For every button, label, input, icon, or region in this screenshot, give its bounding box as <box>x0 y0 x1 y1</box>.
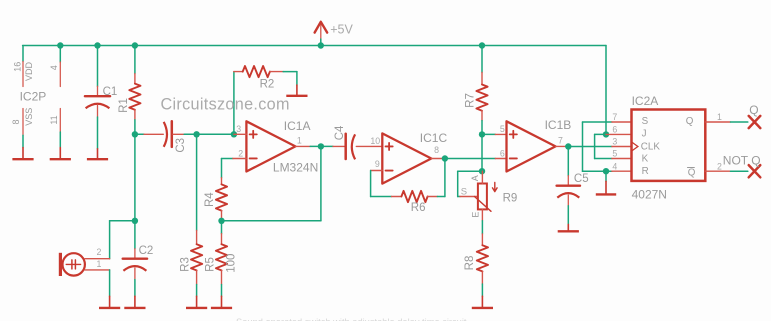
wire R3 to ground <box>196 285 198 297</box>
pin 2 of IC1A <box>233 158 247 160</box>
label R2 <box>260 78 275 90</box>
power pin 16 VDD <box>22 62 24 87</box>
wire R2 to ground <box>283 72 297 85</box>
pin name NQ box <box>688 167 696 178</box>
svg-text:Sound operated switch with adj: Sound operated switch with adjustable de… <box>236 317 467 321</box>
wire mic node <box>134 134 136 221</box>
label R5 <box>204 257 216 272</box>
svg-text:3: 3 <box>236 124 241 134</box>
label C1 <box>103 86 118 98</box>
pin number 4 <box>49 65 59 70</box>
svg-text:R5: R5 <box>204 257 216 272</box>
node junction rail +5V symbol <box>318 42 324 48</box>
svg-text:C1: C1 <box>103 86 118 98</box>
trimmer R9 <box>460 171 497 211</box>
svg-text:10: 10 <box>370 136 380 146</box>
svg-text:R1: R1 <box>118 98 130 113</box>
pin name CLK box <box>641 142 661 153</box>
pin number 5 <box>500 124 505 134</box>
node junction mic-C2 <box>132 218 138 224</box>
ground for C2 <box>124 296 145 308</box>
wire node B down to R3 <box>196 134 198 230</box>
pin 6 of IC2A <box>606 133 632 135</box>
pin number 8 <box>11 119 21 124</box>
watermark Circuitszone.com <box>161 95 290 113</box>
microphone MIC <box>60 253 84 276</box>
wire rail to R7 <box>481 46 483 73</box>
pin name S box <box>642 116 649 127</box>
ground for C1 <box>87 149 108 159</box>
svg-text:VSS: VSS <box>24 108 34 126</box>
svg-text:IC1A: IC1A <box>284 119 311 133</box>
wire node B to opamp input <box>197 133 234 135</box>
svg-text:R7: R7 <box>464 93 476 108</box>
svg-text:IC1C: IC1C <box>420 131 448 145</box>
label R4 <box>204 192 216 207</box>
svg-text:4: 4 <box>612 161 617 171</box>
svg-text:9: 9 <box>375 159 380 169</box>
svg-text:R6: R6 <box>411 202 426 214</box>
svg-text:A: A <box>470 175 480 181</box>
wire R5 to ground <box>221 285 223 297</box>
pin number 16 <box>12 62 22 72</box>
ground for R8 <box>472 296 493 308</box>
svg-text:7: 7 <box>612 112 617 122</box>
svg-text:2: 2 <box>238 148 243 158</box>
svg-text:1: 1 <box>297 136 302 146</box>
pin 1 of mic <box>85 269 110 271</box>
svg-text:100: 100 <box>226 254 238 273</box>
power pin 8 VSS <box>22 109 24 136</box>
node junction rail-C1 <box>94 42 100 48</box>
svg-text:R: R <box>642 166 649 177</box>
pin number 11 <box>49 115 59 124</box>
pin name S <box>461 187 467 198</box>
svg-text:Q: Q <box>688 167 696 178</box>
node junction R7-pin5 <box>479 131 485 137</box>
svg-text:J: J <box>642 128 647 139</box>
wire NOT Q out <box>731 170 748 172</box>
ground for C5 <box>558 224 579 231</box>
pin number 8 <box>434 145 439 155</box>
pin 7 of IC2A <box>612 121 632 123</box>
ground for R3 <box>186 296 207 308</box>
power pin VDD wire <box>22 46 24 62</box>
pin 9 of IC1C <box>371 170 383 172</box>
svg-text:11: 11 <box>49 115 59 124</box>
ground for S and R <box>596 181 616 194</box>
wire Q out <box>731 121 748 123</box>
pin number 1 mic <box>96 259 101 269</box>
wire pin3 node up to R2 <box>233 72 235 135</box>
wire +5V top rail <box>23 46 606 134</box>
ground for R5 <box>211 296 232 308</box>
label Q <box>749 103 758 117</box>
svg-text:3: 3 <box>612 137 617 147</box>
wire R6 to output node <box>437 159 445 197</box>
pin number 5 IC2A <box>612 149 617 159</box>
pin 8 of IC1C <box>431 158 443 160</box>
wire R9 to R8 <box>481 209 483 234</box>
node junction R-ground <box>603 168 609 174</box>
pin 2 of IC2A <box>705 170 730 172</box>
node junction rail-R1 <box>132 42 138 48</box>
pin number 2 mic <box>96 247 101 257</box>
wire mic pin1 to ground <box>109 270 111 296</box>
capacitor C4 <box>333 134 382 160</box>
label IC1B <box>545 118 572 132</box>
label NOT Q <box>723 154 761 168</box>
pin number 10 <box>370 136 380 146</box>
label +5V <box>330 23 353 37</box>
power pin 11 <box>59 109 61 133</box>
pin number 6 <box>500 148 505 158</box>
capacitor C2 <box>123 249 147 280</box>
svg-text:S: S <box>461 187 467 198</box>
svg-text:16: 16 <box>12 62 22 72</box>
ground for pin 11 <box>50 148 71 160</box>
pin name J box <box>642 128 647 139</box>
node junction C3-R3 <box>193 131 199 137</box>
svg-text:2: 2 <box>717 161 722 171</box>
svg-text:IC2A: IC2A <box>632 94 659 108</box>
svg-text:5: 5 <box>612 149 617 159</box>
pin name Q box <box>686 116 694 127</box>
wire node to R5 <box>221 221 223 234</box>
pin 2 of mic <box>85 258 110 260</box>
pin name E <box>471 212 481 218</box>
label C4 <box>334 125 346 140</box>
node junction divider-R9 <box>479 168 485 174</box>
wire node to mic pin2 <box>110 221 135 259</box>
value 100 <box>226 254 238 273</box>
wire output to pin 6 <box>445 158 495 160</box>
svg-text:7: 7 <box>558 136 563 146</box>
svg-text:6: 6 <box>500 148 505 158</box>
label R3 <box>179 257 191 272</box>
pin name R box <box>642 166 649 177</box>
svg-text:C5: C5 <box>574 173 589 185</box>
wire pin9 loop <box>371 171 392 197</box>
svg-text:LM324N: LM324N <box>273 160 318 174</box>
svg-text:IC2P: IC2P <box>20 89 47 103</box>
wire IC1A out to C4 <box>321 145 333 147</box>
label IC1A <box>284 119 311 133</box>
svg-text:Circuitszone.com: Circuitszone.com <box>161 95 290 113</box>
wire R8 to ground <box>481 284 483 296</box>
wire C3 to node B <box>184 133 196 135</box>
pin name VSS <box>24 108 34 126</box>
wire R node to ground <box>605 171 607 181</box>
node junction pin3-R2 <box>231 131 237 137</box>
wire C2 to ground <box>134 280 136 297</box>
capacitor C5 <box>557 176 580 206</box>
resistor R8 <box>477 234 488 284</box>
supply +5V symbol <box>315 22 328 46</box>
svg-text:R3: R3 <box>179 257 191 272</box>
wire node to pin 5 <box>482 133 495 135</box>
node junction IC1C output <box>442 155 448 161</box>
pin name A <box>470 175 480 181</box>
resistor R5 <box>216 234 227 285</box>
pin number 9 <box>375 159 380 169</box>
svg-text:8: 8 <box>434 145 439 155</box>
svg-text:R9: R9 <box>503 192 518 204</box>
power pin 4 wire <box>59 46 61 63</box>
svg-text:Q: Q <box>749 103 758 117</box>
pin 1 of IC2A <box>705 121 730 123</box>
svg-text:4: 4 <box>49 65 59 70</box>
label LM324N <box>273 160 318 174</box>
wire pin5 node down <box>481 134 483 171</box>
label R7 <box>464 93 476 108</box>
node junction rail-pin4 <box>57 42 63 48</box>
svg-text:C4: C4 <box>334 125 346 140</box>
svg-text:IC1B: IC1B <box>545 118 572 132</box>
wire wiper S loop <box>458 171 482 196</box>
node junction IC1A output <box>318 143 324 149</box>
pin number 7 <box>558 136 563 146</box>
pin name K box <box>642 154 649 165</box>
label IC1C <box>420 131 448 145</box>
caption text cut at bottom <box>236 317 467 321</box>
label IC2A <box>632 94 659 108</box>
pin 7 of IC1B <box>556 145 567 147</box>
pin number 7 IC2A <box>612 112 617 122</box>
pin number 6 IC2A <box>612 125 617 135</box>
svg-text:2: 2 <box>96 247 101 257</box>
svg-text:R8: R8 <box>464 256 476 271</box>
pin number 4 IC2A <box>612 161 617 171</box>
node junction rail-J <box>603 131 609 137</box>
resistor R4 <box>216 178 227 220</box>
wire C1 to ground <box>97 117 99 149</box>
wire R7 to node <box>481 121 483 135</box>
wire output node to C5 <box>567 147 569 176</box>
svg-text:R4: R4 <box>204 192 216 207</box>
ground for VSS <box>12 148 33 160</box>
pin 5 of IC1B <box>495 133 506 135</box>
svg-text:1: 1 <box>96 259 101 269</box>
svg-text:K: K <box>642 154 649 165</box>
wire CLK net <box>568 146 612 148</box>
wire S-R tie <box>583 122 612 171</box>
op-amp IC1C <box>382 133 431 183</box>
node junction IC1B output <box>565 143 571 149</box>
svg-text:6: 6 <box>612 125 617 135</box>
wire C5 to ground <box>567 206 569 225</box>
svg-text:4027N: 4027N <box>632 187 667 201</box>
resistor R7 <box>476 73 487 121</box>
wire pin1 to node <box>310 145 321 147</box>
wire R1 to node A <box>134 120 136 135</box>
pin number 1 IC2A <box>717 112 722 122</box>
resistor R1 <box>129 74 140 120</box>
ground for R2 <box>286 85 307 96</box>
label C5 <box>574 173 589 185</box>
wire to pin 2 <box>222 159 233 178</box>
wire node to C2 <box>134 221 136 249</box>
svg-text:R2: R2 <box>260 78 275 90</box>
node junction R1-C3-mic <box>132 131 138 137</box>
svg-text:5: 5 <box>500 124 505 134</box>
pin 1 of IC1A <box>295 145 310 147</box>
svg-text:E: E <box>471 212 481 218</box>
label R1 <box>118 98 130 113</box>
op-amp IC1A <box>246 121 295 171</box>
wire pin8 to node <box>443 158 445 160</box>
power pin 4 <box>59 62 61 87</box>
svg-text:CLK: CLK <box>641 142 661 153</box>
pin name VDD <box>24 62 34 82</box>
label R8 <box>464 256 476 271</box>
pin number 2 IC2A <box>717 161 722 171</box>
label R6 <box>411 202 426 214</box>
svg-text:+5V: +5V <box>330 23 353 37</box>
pin number 3 <box>236 124 241 134</box>
label C3 <box>175 138 187 153</box>
resistor R2 <box>234 66 283 77</box>
wire feedback loop <box>222 146 321 220</box>
pin number 2 <box>238 148 243 158</box>
resistor R6 <box>392 191 438 202</box>
ic IC2P label <box>20 89 47 103</box>
label C2 <box>139 245 154 257</box>
pin number 3 IC2A <box>612 137 617 147</box>
node junction rail-R7 <box>479 42 485 48</box>
wire node to C3 <box>135 133 144 135</box>
resistor R3 <box>191 231 202 285</box>
label R9 <box>503 192 518 204</box>
pin 5 of IC2A <box>612 158 632 160</box>
ground for mic <box>99 296 120 308</box>
node junction R4-R5-feedback <box>218 218 224 224</box>
label 4027N <box>632 187 667 201</box>
pin 3 of IC2A <box>612 146 632 148</box>
svg-text:NOT Q: NOT Q <box>723 154 761 168</box>
svg-text:Q: Q <box>686 116 694 127</box>
pin 4 of IC2A <box>612 170 632 172</box>
pin 3 of IC1A <box>234 133 247 135</box>
pin 6 of IC1B <box>495 158 506 160</box>
wire rail to R1 <box>134 46 136 74</box>
svg-text:VDD: VDD <box>24 62 34 82</box>
terminal X NOT Q <box>749 165 761 177</box>
wire J-K tie <box>595 134 612 158</box>
wire rail to C1 <box>97 46 99 87</box>
flip-flop IC2A box <box>632 110 706 181</box>
svg-text:C2: C2 <box>139 245 154 257</box>
op-amp IC1B <box>507 121 556 171</box>
svg-text:1: 1 <box>717 112 722 122</box>
pin number 1 <box>297 136 302 146</box>
wire pin11 to ground <box>59 132 61 148</box>
wire VSS to ground <box>22 135 24 147</box>
capacitor C1 <box>85 86 110 117</box>
svg-text:C3: C3 <box>175 138 187 153</box>
svg-text:8: 8 <box>11 119 21 124</box>
terminal X Q <box>749 116 761 128</box>
capacitor C3 <box>144 121 184 147</box>
svg-text:S: S <box>642 116 649 127</box>
